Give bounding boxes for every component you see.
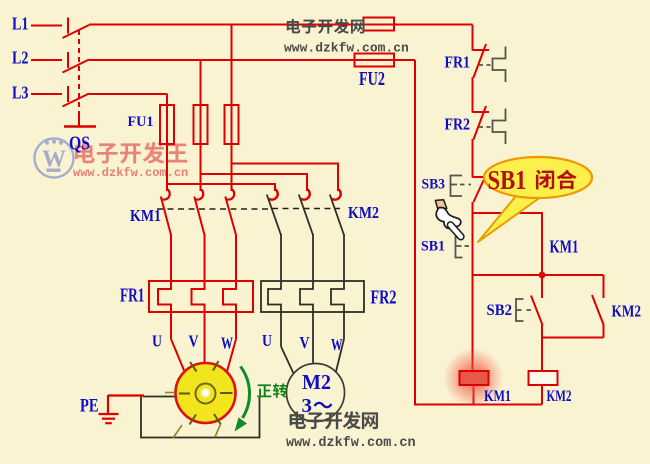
svg-text:V: V bbox=[300, 333, 311, 352]
svg-text:QS: QS bbox=[69, 133, 90, 155]
wire KM1 pole 3 to FR1 heater 3 bbox=[223, 234, 236, 339]
motor M1 hub ring bbox=[196, 384, 216, 404]
svg-text:KM1: KM1 bbox=[550, 237, 579, 257]
hand glove palm bbox=[436, 207, 461, 228]
svg-text:SB3: SB3 bbox=[422, 177, 446, 193]
wire KM1 pole 1 to FR1 heater 1 bbox=[158, 234, 171, 339]
QS pole 2 fixed contact tick bbox=[67, 52, 69, 68]
rotation arrow head bbox=[235, 418, 248, 432]
contact FR1 NC top bar bbox=[473, 49, 490, 51]
svg-text:U: U bbox=[262, 331, 272, 350]
svg-text:U: U bbox=[152, 332, 162, 351]
coil KM1 glow bbox=[444, 348, 504, 408]
svg-text:FR1: FR1 bbox=[120, 285, 145, 307]
svg-text:PE: PE bbox=[80, 396, 99, 417]
contact KM2 NC interlock blade bbox=[592, 295, 604, 325]
wire branch to KM2 pole 2 bbox=[201, 174, 308, 191]
contactor KM2 pole 3 blade bbox=[330, 195, 344, 236]
wire L2 return rail down bbox=[414, 60, 416, 405]
contactor KM2 pole 2 fixed hook bbox=[301, 189, 310, 200]
svg-text:SB2: SB2 bbox=[487, 302, 513, 319]
wire parallel junction rail bbox=[473, 274, 604, 276]
wire L2 from terminal to switch bbox=[31, 59, 62, 61]
svg-text:W: W bbox=[221, 334, 233, 353]
QS pole 3 fixed contact tick bbox=[67, 86, 69, 102]
svg-text:KM1: KM1 bbox=[484, 388, 511, 405]
contact FR2 NC blade bbox=[474, 106, 487, 140]
wire L3 from terminal to switch bbox=[31, 93, 62, 95]
contactor KM2 linkage dashed bbox=[272, 208, 340, 210]
svg-text:KM2: KM2 bbox=[547, 388, 572, 405]
svg-text:W: W bbox=[331, 335, 343, 354]
contactor KM1 pole 3 fixed hook bbox=[226, 189, 235, 200]
contactor KM1 pole 2 blade bbox=[194, 197, 204, 236]
wire KM2 interlock branch down bbox=[603, 275, 605, 298]
wire interlock bottom link bbox=[542, 337, 604, 339]
wire KM2 pole 1 to FR2 heater 1 bbox=[268, 234, 281, 347]
QS handle bar bbox=[64, 125, 96, 128]
motor M1 inner spokes bbox=[179, 361, 233, 425]
svg-text:FR2: FR2 bbox=[371, 287, 397, 309]
wire KM2 coil to bottom rail bbox=[541, 385, 543, 405]
wire drop L1 phase to FU1 fuse 3 bbox=[231, 25, 233, 192]
wire L1 bus to control branch bbox=[89, 24, 473, 26]
svg-text:L2: L2 bbox=[12, 48, 29, 68]
thermal relay FR1 box bbox=[149, 281, 253, 312]
motor M1 (animated, rotating) bbox=[165, 361, 236, 438]
motor M1 outer disc bbox=[176, 363, 236, 423]
watermark logo circle W bbox=[35, 139, 74, 178]
contact FR2 NC top bar bbox=[473, 111, 490, 113]
fuse FU1 element 2 bbox=[194, 105, 208, 144]
wire PE link to motor frame bbox=[143, 396, 176, 398]
contactor KM1 linkage dashed bbox=[157, 208, 268, 210]
contactor KM2 pole 3 fixed hook bbox=[332, 189, 341, 200]
wire branch to KM1 aux contact bbox=[473, 213, 543, 275]
contactor KM2 pole 1 fixed hook bbox=[269, 189, 278, 200]
watermark red text 电子开发王 bbox=[75, 142, 187, 164]
motor M1 hub center bbox=[201, 389, 210, 398]
QS pole 1 fixed contact tick bbox=[67, 18, 69, 34]
thermal contact symbols + button actuators (grey) bbox=[451, 47, 535, 322]
hand cuff bbox=[435, 200, 446, 210]
wire L1 from terminal to switch bbox=[31, 25, 62, 27]
contactor KM1 pole 1 blade bbox=[161, 197, 171, 236]
relay FR1 link dashes bbox=[479, 64, 492, 66]
button SB3 link dashes bbox=[460, 184, 471, 186]
wire KM1 coil to bottom rail bbox=[473, 385, 475, 405]
junction dot bbox=[539, 272, 546, 279]
hand cursor pointing at SB1 bbox=[435, 200, 464, 240]
svg-text:SB1: SB1 bbox=[488, 165, 527, 195]
svg-text:L3: L3 bbox=[12, 83, 29, 103]
button SB3 actuator bbox=[451, 176, 463, 197]
wire SB2 to KM2 coil bbox=[541, 325, 543, 372]
callout text 闭合 bbox=[536, 170, 577, 190]
wire drop L3 phase to FU1 fuse 1 bbox=[166, 94, 168, 191]
ground PE symbol bbox=[99, 395, 145, 423]
button SB2 NC blade bbox=[531, 296, 543, 326]
svg-text:KM1: KM1 bbox=[130, 206, 161, 225]
wire L3 bus bbox=[89, 93, 168, 95]
motor M1 outer spikes bbox=[165, 393, 221, 439]
svg-text:KM2: KM2 bbox=[348, 203, 379, 222]
svg-text:KM2: KM2 bbox=[612, 302, 642, 321]
watermark top grey 电子开发网 bbox=[287, 19, 365, 34]
wire motor frame loop bbox=[141, 397, 260, 438]
wire below KM2 interlock bbox=[603, 324, 605, 338]
svg-text:V: V bbox=[189, 332, 200, 351]
svg-text:www.dzkfw.com.cn: www.dzkfw.com.cn bbox=[284, 41, 409, 56]
button SB1 actuator bbox=[456, 237, 463, 258]
relay FR1 element symbol bbox=[493, 47, 506, 83]
watermark bottom grey 电子开发网 bbox=[290, 411, 378, 429]
thermal relay FR2 box bbox=[261, 281, 364, 312]
QS linkage dashed rod bbox=[78, 30, 80, 116]
coil KM2 bbox=[529, 371, 558, 385]
QS pole 1 blade bbox=[63, 25, 90, 38]
wire SB3 to SB1 bbox=[472, 202, 474, 213]
svg-text:SB1: SB1 bbox=[421, 239, 445, 255]
wire U to motor M2 bbox=[281, 347, 295, 376]
button SB1 link dashes bbox=[465, 245, 473, 247]
wire branch to KM2 pole 1 bbox=[167, 184, 275, 191]
wire FR1 to FR2 bbox=[472, 77, 474, 113]
fuse FU1 element 1 bbox=[160, 105, 174, 144]
button SB2 link dashes bbox=[527, 309, 535, 311]
QS handle rod bbox=[78, 116, 80, 126]
fuse FU1 element 3 bbox=[225, 105, 239, 144]
wire FR2 to SB3 bbox=[472, 139, 474, 178]
motor M2 circle bbox=[287, 364, 345, 422]
contactor KM2 fixed hooks (red) bbox=[269, 189, 341, 200]
QS pole 3 blade bbox=[63, 94, 90, 107]
wire KM2 pole 3 to FR2 heater 3 bbox=[331, 234, 344, 339]
wire U to motor bbox=[171, 339, 185, 372]
contactor KM1 pole 3 blade bbox=[225, 197, 236, 236]
contactor KM2 pole 1 blade bbox=[267, 195, 281, 236]
fuse FU2 element 2 (L2 branch) bbox=[355, 54, 395, 67]
contactor KM1 pole 1 fixed hook bbox=[161, 189, 170, 200]
wire junction to SB2 bbox=[541, 275, 543, 298]
wire drop L2 phase to FU1 fuse 2 bbox=[200, 60, 202, 191]
svg-text:M2: M2 bbox=[302, 370, 331, 394]
wire bottom return rail bbox=[414, 404, 542, 406]
callout bubble tail bbox=[478, 191, 540, 243]
wire W to motor M2 bbox=[336, 339, 344, 372]
contactor KM1 pole 2 fixed hook bbox=[195, 189, 204, 200]
label 正转 (forward) green bbox=[257, 383, 287, 398]
svg-text:www.dzkfw.com.cn: www.dzkfw.com.cn bbox=[73, 166, 188, 180]
rotation arrow green bbox=[241, 367, 250, 419]
svg-text:FU2: FU2 bbox=[359, 68, 385, 90]
relay FR2 element symbol bbox=[493, 109, 506, 145]
contactor KM2 pole 2 blade bbox=[299, 195, 313, 236]
fuse FU2 element 1 (L1 branch) bbox=[364, 18, 395, 31]
wire SB1 closed path down to coil KM1 bbox=[472, 213, 474, 371]
svg-text:FU1: FU1 bbox=[128, 114, 154, 130]
wire branch to KM2 pole 3 bbox=[232, 164, 339, 192]
coil KM1 bbox=[460, 371, 489, 385]
QS pole 2 blade bbox=[63, 60, 90, 73]
relay FR2 link dashes bbox=[479, 126, 492, 128]
hand index finger bbox=[447, 222, 464, 240]
svg-text:L1: L1 bbox=[12, 14, 29, 34]
wire control hot down to FR1 contact bbox=[472, 25, 474, 51]
svg-text:FR1: FR1 bbox=[445, 53, 471, 72]
svg-text:www.dzkfw.com.cn: www.dzkfw.com.cn bbox=[286, 436, 416, 451]
wire W to motor bbox=[227, 339, 236, 372]
wire L2 bus bbox=[89, 59, 415, 61]
button SB3 NC blade bbox=[474, 174, 487, 202]
wire KM1 pole 2 to FR1 heater 2 bbox=[192, 234, 205, 364]
svg-text:FR2: FR2 bbox=[445, 115, 471, 134]
callout bubble SB1 闭合 bbox=[484, 157, 592, 198]
wire KM2 pole 2 to FR2 heater 2 bbox=[300, 234, 313, 364]
button SB2 actuator bbox=[516, 299, 524, 321]
button SB3 NC top bar bbox=[473, 176, 488, 178]
wire PE to motor bbox=[108, 394, 144, 396]
contact FR1 NC blade bbox=[474, 44, 487, 78]
